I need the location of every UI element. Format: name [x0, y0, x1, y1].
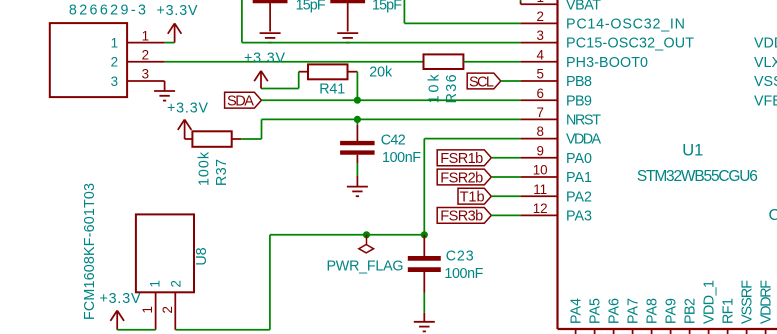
svg-text:PB8: PB8 — [566, 74, 592, 90]
svg-text:VLX: VLX — [754, 55, 777, 71]
svg-text:R36: R36 — [444, 74, 460, 103]
svg-text:R41: R41 — [319, 82, 345, 98]
svg-text:100nF: 100nF — [382, 150, 421, 166]
svg-text:PH3-BOOT0: PH3-BOOT0 — [566, 55, 648, 71]
svg-text:3: 3 — [142, 67, 149, 82]
svg-text:NRST: NRST — [566, 113, 601, 129]
svg-text:VDDA: VDDA — [566, 132, 601, 148]
svg-text:+3.3V: +3.3V — [157, 3, 198, 19]
svg-text:C23: C23 — [446, 248, 474, 264]
svg-text:+3.3V: +3.3V — [100, 291, 141, 307]
svg-text:PA7: PA7 — [626, 298, 642, 324]
svg-text:100k: 100k — [197, 151, 213, 186]
svg-text:SDA: SDA — [227, 94, 254, 110]
svg-text:FSR1b: FSR1b — [440, 151, 483, 167]
svg-text:STM32WB55CGU6: STM32WB55CGU6 — [637, 168, 758, 185]
svg-text:3: 3 — [111, 74, 118, 89]
svg-text:1: 1 — [140, 306, 155, 313]
svg-text:SCL: SCL — [469, 74, 494, 90]
svg-text:PC15-OSC32_OUT: PC15-OSC32_OUT — [566, 36, 694, 52]
svg-text:VFB: VFB — [754, 93, 777, 109]
svg-text:C2: C2 — [769, 207, 777, 224]
svg-text:5: 5 — [536, 67, 543, 82]
svg-text:9: 9 — [536, 143, 543, 158]
svg-text:PWR_FLAG: PWR_FLAG — [327, 259, 404, 275]
svg-text:10: 10 — [533, 163, 548, 178]
svg-text:VBAT: VBAT — [566, 0, 601, 13]
svg-text:U8: U8 — [194, 247, 210, 265]
svg-text:15pF: 15pF — [372, 0, 402, 14]
svg-text:C42: C42 — [381, 133, 406, 149]
svg-text:PB9: PB9 — [566, 93, 592, 109]
svg-text:7: 7 — [536, 105, 543, 120]
svg-text:1: 1 — [111, 35, 118, 50]
svg-text:PA8: PA8 — [645, 298, 661, 324]
svg-text:T1b: T1b — [460, 190, 485, 206]
svg-text:VDD: VDD — [754, 36, 777, 52]
svg-text:FSR3b: FSR3b — [440, 209, 483, 225]
svg-text:15pF: 15pF — [296, 0, 326, 14]
svg-text:10k: 10k — [427, 74, 443, 104]
svg-text:PC14-OSC32_IN: PC14-OSC32_IN — [566, 17, 685, 33]
svg-text:PA0: PA0 — [566, 151, 592, 167]
svg-text:12: 12 — [533, 201, 548, 216]
svg-text:1: 1 — [142, 28, 149, 43]
svg-text:4: 4 — [536, 47, 544, 62]
svg-text:1: 1 — [147, 280, 162, 287]
svg-text:6: 6 — [536, 86, 543, 101]
svg-text:11: 11 — [533, 182, 547, 197]
svg-text:VDD_1: VDD_1 — [702, 280, 718, 324]
svg-text:PA2: PA2 — [566, 189, 592, 205]
svg-text:PA1: PA1 — [566, 170, 592, 186]
svg-text:VSS: VSS — [754, 74, 777, 90]
svg-text:FCM1608KF-601T03: FCM1608KF-601T03 — [82, 183, 98, 320]
svg-text:PB2: PB2 — [683, 298, 699, 324]
svg-text:1: 1 — [536, 0, 543, 5]
svg-text:3: 3 — [536, 28, 543, 43]
svg-text:2: 2 — [142, 48, 149, 63]
svg-text:PA6: PA6 — [607, 298, 623, 324]
svg-text:8: 8 — [536, 124, 543, 139]
svg-text:FSR2b: FSR2b — [440, 170, 483, 186]
svg-text:2: 2 — [169, 280, 184, 287]
svg-text:RF1: RF1 — [721, 298, 737, 324]
svg-text:826629-3: 826629-3 — [69, 2, 146, 18]
svg-text:+3.3V: +3.3V — [167, 101, 208, 117]
svg-text:U1: U1 — [682, 141, 703, 159]
svg-text:20k: 20k — [369, 65, 393, 81]
svg-text:VDDRF: VDDRF — [759, 280, 775, 324]
svg-text:R37: R37 — [214, 159, 230, 186]
svg-text:+3.3V: +3.3V — [244, 50, 285, 66]
svg-text:2: 2 — [536, 9, 543, 24]
svg-text:PA4: PA4 — [569, 298, 585, 324]
svg-text:VSSRF: VSSRF — [740, 280, 756, 324]
svg-text:2: 2 — [111, 55, 118, 70]
svg-text:PA9: PA9 — [664, 298, 680, 324]
svg-text:100nF: 100nF — [444, 266, 483, 282]
svg-text:2: 2 — [160, 306, 175, 313]
svg-text:PA3: PA3 — [566, 209, 592, 225]
svg-text:PA5: PA5 — [588, 298, 604, 324]
